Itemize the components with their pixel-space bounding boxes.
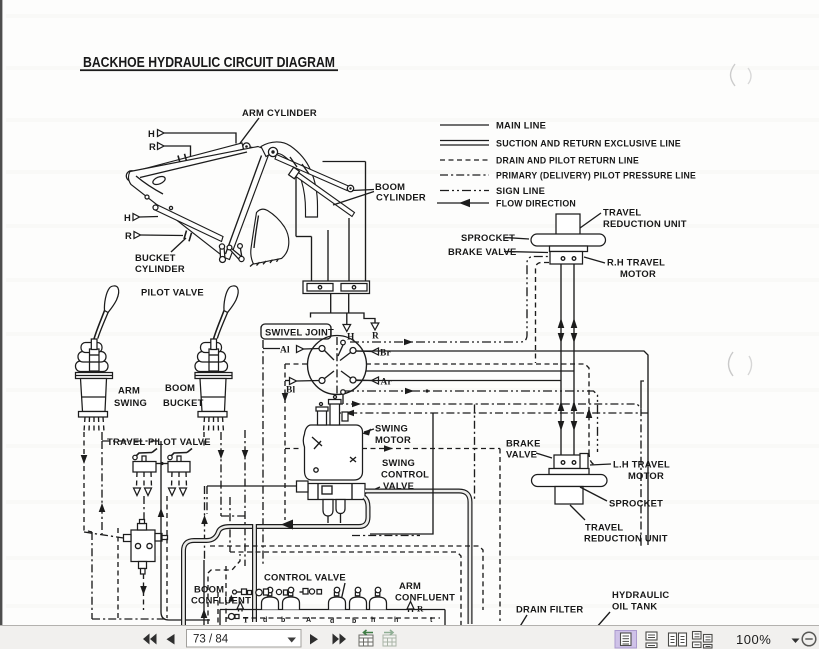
pilot valve drain stubs <box>84 417 104 432</box>
svg-text:REDUCTION UNIT: REDUCTION UNIT <box>603 218 687 229</box>
svg-text:h: h <box>371 617 375 624</box>
svg-text:SPROCKET: SPROCKET <box>609 498 663 509</box>
travel pilot valve left pedal drain triangles <box>134 472 152 496</box>
boom foot component box <box>303 281 370 294</box>
svg-text:ARM: ARM <box>118 385 140 396</box>
label TRAVEL REDUCTION UNIT (RH) <box>580 207 687 230</box>
travel reduction unit LH <box>555 487 583 505</box>
label TRAVEL REDUCTION UNIT (LH) <box>570 505 668 544</box>
svg-text:d: d <box>263 617 267 624</box>
svg-text:Bl: Bl <box>286 386 296 396</box>
travel reduction unit RH <box>556 214 580 235</box>
wire: pilot dash-dot y404 to right <box>335 381 644 546</box>
tiny port letters in control valve strip <box>263 617 433 625</box>
legend row: flow direction <box>437 198 576 209</box>
label DRAIN FILTER <box>516 604 583 629</box>
wire: dash-dot x144 shuttle to control valve <box>140 496 147 610</box>
wire: pilot dash-dot y413 to right <box>333 410 648 417</box>
svg-text:FLOW DIRECTION: FLOW DIRECTION <box>496 198 576 209</box>
svg-text:b: b <box>352 618 356 625</box>
bucket <box>250 209 289 266</box>
svg-text:ARM: ARM <box>399 580 421 591</box>
label CONTROL VALVE <box>264 572 346 606</box>
label PILOT VALVE <box>141 287 204 298</box>
label BRAKE VALVE (RH) <box>448 246 548 257</box>
svg-text:R: R <box>372 332 379 342</box>
bucket linkage <box>219 244 244 263</box>
legend row: suction and return exclusive line <box>440 138 681 149</box>
travel motor LH flange <box>549 469 589 475</box>
arm cylinder tube <box>138 143 263 177</box>
dashed enclosure outer (control valve group) <box>210 546 483 610</box>
boom confluent port arrow <box>237 602 244 612</box>
legend row: sign line <box>440 185 545 196</box>
svg-text:SWING: SWING <box>114 397 147 408</box>
svg-text:CYLINDER: CYLINDER <box>135 263 185 274</box>
svg-text:R: R <box>125 230 132 241</box>
svg-text:Ar: Ar <box>381 378 392 388</box>
wire: ARM-SWING pilot center line (dash-dot) <box>99 432 161 534</box>
svg-text:SWING: SWING <box>382 457 415 468</box>
toolbar continuous facing layout button <box>693 632 713 649</box>
port R bucket <box>125 230 183 241</box>
svg-text:b: b <box>281 617 285 624</box>
drain port P glyph <box>229 614 250 625</box>
wire: vertical dash-dot x92 to bottom left <box>92 532 168 619</box>
stick (dipper arm) <box>128 147 268 260</box>
pipe chase outline <box>296 162 366 282</box>
svg-text:h: h <box>394 617 398 624</box>
svg-text:MOTOR: MOTOR <box>620 268 656 279</box>
svg-text:SWIVEL JOINT: SWIVEL JOINT <box>265 327 334 338</box>
label SPROCKET (LH) <box>580 487 663 509</box>
wire: solid line x161 from pedals to bottom <box>158 441 210 620</box>
swivel port Ar <box>356 377 392 388</box>
wire: sign line y342 swivel to RH brake valve <box>350 257 549 346</box>
travel motor RH body <box>550 252 583 265</box>
svg-text:BUCKET: BUCKET <box>163 397 204 408</box>
port H bucket <box>124 212 158 223</box>
svg-text:R: R <box>149 141 156 152</box>
pilot valve ARM-SWING joystick <box>76 286 119 432</box>
svg-text:CONTROL VALVE: CONTROL VALVE <box>264 572 346 583</box>
svg-text:BUCKET: BUCKET <box>135 252 176 263</box>
toolbar prev page button <box>167 634 175 645</box>
toolbar zoom out button <box>802 632 816 646</box>
toolbar single page layout button (selected) <box>615 631 637 649</box>
pilot valve mount plate <box>76 373 113 379</box>
wire: pilot dash-dot x474 down <box>474 405 476 501</box>
svg-text:OIL TANK: OIL TANK <box>612 601 657 612</box>
toolbar page number combo box <box>187 630 302 648</box>
sprocket RH <box>531 234 606 246</box>
swing control valve body <box>297 481 366 500</box>
svg-text:L.H TRAVEL: L.H TRAVEL <box>613 459 670 470</box>
control valve pilot caps <box>262 587 387 609</box>
label SWING MOTOR <box>362 423 411 446</box>
wire: main line y381 Ar to LH travel vertical <box>356 380 561 382</box>
svg-text:R.H TRAVEL: R.H TRAVEL <box>607 257 665 268</box>
UI toolbar background <box>0 625 819 649</box>
travel pilot valve right pedal drain triangles <box>169 472 187 496</box>
brake valve RH flange <box>550 246 588 252</box>
pilot valve bellows <box>76 339 109 372</box>
pilot valve drain stubs <box>204 417 224 432</box>
swivel port B1 <box>285 378 319 396</box>
label ARM SWING <box>114 385 147 409</box>
label BOOM CYLINDER <box>333 181 426 205</box>
legend row: primary pilot pressure line <box>440 170 696 181</box>
svg-text:DRAIN FILTER: DRAIN FILTER <box>516 604 583 615</box>
pilot valve bellows <box>195 339 228 372</box>
svg-text:CONFLUENT: CONFLUENT <box>395 592 455 603</box>
label BRAKE VALVE (LH) <box>506 438 552 460</box>
wire: dash-dot x264 swivel left feed <box>262 340 264 566</box>
label ARM CONFLUENT <box>395 580 455 603</box>
wire: drain dashed y363 to right <box>285 364 594 465</box>
wire: dashed x285 from swivel Bl down <box>282 364 289 520</box>
label HYDRAULIC OIL TANK <box>596 589 669 628</box>
swivel port Br <box>356 348 391 359</box>
wire: dash-dot x230 down to control valve box <box>229 497 231 552</box>
swivel port A1 <box>263 346 319 356</box>
wire: sign line y391 to LH motor <box>345 388 598 452</box>
svg-text:CONFLUENT: CONFLUENT <box>191 595 251 606</box>
wire: dash-dot stub y530 <box>352 535 420 537</box>
label L.H TRAVEL MOTOR <box>590 459 670 482</box>
label SWING CONTROL VALVE <box>364 457 429 494</box>
label R.H TRAVEL MOTOR <box>584 257 665 280</box>
binder hole artifact top right <box>731 64 752 86</box>
title BACKHOE HYDRAULIC CIRCUIT DIAGRAM <box>80 55 338 71</box>
dashed enclosure left corner <box>208 554 240 624</box>
control valve left fittings <box>228 589 321 602</box>
svg-text:T: T <box>243 616 249 625</box>
pilot valve body <box>198 379 227 418</box>
sprocket LH <box>532 475 608 487</box>
svg-text:VALVE: VALVE <box>506 449 537 460</box>
svg-text:MOTOR: MOTOR <box>628 470 664 481</box>
svg-text:d: d <box>330 618 334 625</box>
pilot valve body <box>79 379 108 418</box>
label BOOM CONFLUENT <box>191 584 251 606</box>
port R arm rod <box>149 141 191 158</box>
pipes from boom foot down to swivel ports <box>311 294 376 325</box>
binder hole artifact mid right <box>729 352 752 376</box>
swing motor body <box>303 425 362 480</box>
swing control valve bottom cylinders <box>323 500 345 517</box>
toolbar next page button <box>310 634 318 645</box>
thick hose: pump delivery down to control valve <box>252 524 257 622</box>
svg-text:H: H <box>148 128 155 139</box>
svg-text:CYLINDER: CYLINDER <box>376 192 426 203</box>
toolbar snapshot icon 1 <box>359 630 373 646</box>
svg-text:CONTROL: CONTROL <box>381 469 429 480</box>
bucket cylinder tube <box>153 205 223 242</box>
wire: dashed from RH brake valve down to drain <box>536 263 550 364</box>
svg-text:PILOT VALVE: PILOT VALVE <box>141 287 204 298</box>
travel pilot valve left pedal <box>133 449 157 473</box>
label SPROCKET (RH) <box>461 232 529 243</box>
wire: dashed x118 down <box>117 528 119 620</box>
wire: main line y371 to LH travel vertical <box>366 370 574 372</box>
boom cylinder rods <box>275 155 355 217</box>
port H arm head <box>148 128 236 144</box>
dashed enclosure inner <box>226 552 461 625</box>
wire: dash-dot from pilot to shuttle left port <box>84 532 124 538</box>
swing motor top fittings <box>316 396 348 426</box>
wire: valve drain stubs to hose <box>328 514 341 524</box>
pilot valve BOOM-BUCKET joystick <box>195 286 238 432</box>
svg-text:HYDRAULIC: HYDRAULIC <box>612 589 669 600</box>
svg-text:SUCTION AND RETURN EXCLUSIVE L: SUCTION AND RETURN EXCLUSIVE LINE <box>496 138 681 149</box>
swivel joint label box <box>261 324 334 339</box>
toolbar snapshot icon 2 (disabled) <box>383 630 396 646</box>
label BUCKET CYLINDER <box>135 238 186 274</box>
toolbar first page button <box>143 634 157 645</box>
left page edge line <box>0 0 2 625</box>
thick hose: swing valve to pump (left S-bend) <box>184 497 369 630</box>
svg-text:100%: 100% <box>736 632 771 647</box>
arm confluent port R arrow <box>407 602 424 614</box>
svg-text:ARM CYLINDER: ARM CYLINDER <box>242 107 317 118</box>
wire: travel main lines x561 x574 <box>558 264 593 455</box>
wire: dash-dot x245 <box>242 430 249 566</box>
wire: drain dashed y448.5 through swing motor <box>285 445 500 621</box>
label ARM CYLINDER <box>238 107 317 146</box>
boom <box>261 142 318 217</box>
swivel joint circle <box>308 336 367 395</box>
toolbar facing layout button <box>669 633 687 646</box>
svg-text:H: H <box>124 212 131 223</box>
svg-text:TRAVEL: TRAVEL <box>603 207 641 218</box>
svg-text:MOTOR: MOTOR <box>375 434 411 445</box>
svg-text:73 / 84: 73 / 84 <box>193 634 229 646</box>
travel pilot valve right pedal <box>168 449 192 473</box>
toolbar continuous layout button <box>646 632 657 648</box>
wire: solid elbow x433 to swing valve <box>370 413 433 534</box>
svg-text:MAIN LINE: MAIN LINE <box>496 120 546 131</box>
svg-text:Al: Al <box>280 346 290 356</box>
pilot valve lever knob <box>214 286 239 339</box>
toolbar zoom level text <box>736 632 800 647</box>
svg-text:REDUCTION UNIT: REDUCTION UNIT <box>584 533 668 544</box>
svg-text:SIGN LINE: SIGN LINE <box>496 185 545 196</box>
thick hose: swing valve to tank (right) <box>365 491 470 624</box>
wire: BOOM-BUCKET pilot dash-dot x221 <box>218 432 245 516</box>
pedal link junction <box>156 462 168 465</box>
svg-text:BOOM: BOOM <box>194 584 224 595</box>
svg-text:R: R <box>417 604 424 614</box>
brake valve LH body <box>554 454 588 471</box>
svg-text:BOOM: BOOM <box>375 181 405 192</box>
svg-text:TRAVEL: TRAVEL <box>585 522 623 533</box>
stick left end cap <box>126 171 136 181</box>
svg-text:BOOM: BOOM <box>165 382 195 393</box>
wire: BOOM-BUCKET pilot drain dashed x204 <box>201 432 208 630</box>
wire: pilot line to swing control valve (solid) <box>207 486 297 514</box>
wire: left drain line from ARM-SWING pilot (dashed) <box>81 432 92 532</box>
pilot valve mount plate <box>195 373 232 379</box>
legend row: main line <box>440 120 546 131</box>
svg-text:PRIMARY (DELIVERY) PILOT PRESS: PRIMARY (DELIVERY) PILOT PRESSURE LINE <box>496 170 696 181</box>
wire: main line y351 Br to right <box>356 351 648 545</box>
label BOOM BUCKET <box>163 382 204 408</box>
label TRAVEL PILOT VALVE <box>107 436 211 447</box>
wire: dashed x167 pedals to bottom <box>166 496 168 618</box>
wire: swivel bottom stub <box>342 395 344 405</box>
svg-text:BACKHOE HYDRAULIC CIRCUIT DIAG: BACKHOE HYDRAULIC CIRCUIT DIAGRAM <box>83 55 335 71</box>
svg-text:SWING: SWING <box>375 423 408 434</box>
shuttle block <box>124 520 168 575</box>
svg-text:Br: Br <box>380 349 391 359</box>
svg-text:BRAKE: BRAKE <box>506 438 541 449</box>
svg-text:A: A <box>306 617 311 624</box>
swivel port R triangle <box>371 323 379 342</box>
legend row: drain and pilot return line <box>440 155 639 166</box>
pilot valve lever knob <box>94 286 119 339</box>
svg-text:DRAIN AND PILOT RETURN LINE: DRAIN AND PILOT RETURN LINE <box>496 155 639 166</box>
swivel port H triangle <box>343 325 355 343</box>
toolbar last page button <box>333 634 347 645</box>
control valve block top line <box>220 610 445 626</box>
